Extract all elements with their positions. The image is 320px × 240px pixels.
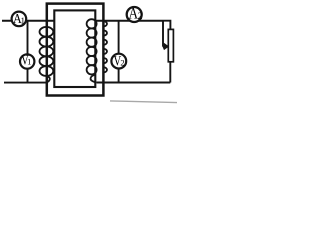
wire right drop to slider bbox=[162, 21, 164, 47]
transformer core outer rectangle bbox=[47, 4, 104, 96]
wire V2 branch vertical bbox=[118, 21, 120, 83]
ammeter A1 bbox=[12, 12, 27, 27]
slider arrow of rheostat bbox=[163, 44, 168, 50]
stray page line bbox=[110, 101, 177, 103]
wire resistor bottom lead bbox=[169, 62, 171, 83]
svg-text:2: 2 bbox=[138, 12, 143, 22]
wire top-left from input to core bbox=[2, 20, 54, 22]
wire V1 branch vertical bbox=[27, 21, 29, 83]
wire resistor top lead bbox=[163, 21, 170, 30]
secondary winding S (6 turns) bbox=[87, 19, 107, 82]
resistor R (rheostat body) bbox=[168, 29, 173, 61]
wire bottom-left bbox=[4, 82, 48, 84]
voltmeter V1 bbox=[20, 53, 34, 69]
svg-text:1: 1 bbox=[27, 57, 31, 67]
svg-text:1: 1 bbox=[21, 16, 26, 26]
voltmeter V2 bbox=[111, 53, 126, 69]
svg-text:2: 2 bbox=[120, 58, 124, 68]
primary winding P (5 turns) bbox=[40, 27, 54, 83]
wire secondary top to A2 to right corner bbox=[95, 20, 163, 22]
wire bottom-right bbox=[97, 82, 171, 84]
ammeter A2 bbox=[127, 6, 143, 23]
transformer core inner rectangle bbox=[54, 10, 95, 87]
